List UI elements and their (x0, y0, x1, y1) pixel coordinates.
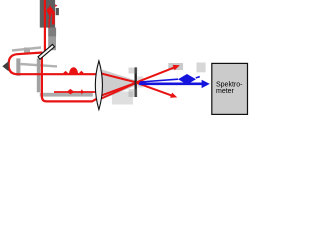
blue ray to diamond (140, 79, 178, 82)
dark mark right of lamp (56, 8, 59, 15)
beam vertical from lamp (44, 0, 46, 53)
lens L1 (95, 61, 102, 110)
lamp column gray (48, 28, 56, 51)
converging ray lower2 (102, 83, 137, 99)
ghost band lower (40, 93, 93, 97)
scatter star b2 (79, 89, 85, 95)
ghost blocks at filter (129, 68, 144, 98)
mirror M1 (38, 44, 55, 59)
ghost line A (12, 48, 41, 51)
scatter diamond b1 (67, 89, 74, 95)
flame tail (49, 19, 50, 28)
converging ray upper (102, 74, 137, 83)
spectrometer box (212, 63, 248, 114)
red ray down with arrow (137, 83, 178, 98)
red dash after filter (137, 81, 146, 83)
scatter dome a2 (69, 67, 78, 74)
scatter diamond a1 (63, 71, 68, 75)
beam transmitted down (42, 57, 97, 102)
svg-text:meter: meter (216, 88, 235, 95)
lamp housing U1 (40, 0, 55, 28)
blue diamond (178, 74, 196, 85)
scatter diamond a3 (79, 71, 83, 75)
converging ray lower1 (102, 83, 136, 96)
glow stripe on right bar (52, 11, 55, 24)
red ray up with arrow (137, 65, 180, 82)
spark arrow right of lamp (55, 4, 57, 7)
beam reflected to loop (9, 53, 97, 75)
pump arrow wedge (2, 61, 8, 71)
ghost block near box (197, 63, 206, 73)
ghost corner block (24, 48, 30, 54)
ghost bar in loop (16, 58, 20, 75)
gray smudge below cone (112, 92, 133, 105)
filter bar FL1 (135, 67, 137, 97)
blue dash after diamond (196, 77, 200, 78)
ghost line B (21, 64, 58, 66)
blue main arrow (139, 80, 210, 88)
beam B lower (54, 91, 96, 93)
ghost block near red arrow (168, 63, 183, 70)
ghost bar left of beam (37, 59, 41, 93)
gray cone to filter (102, 70, 136, 100)
flame F1 (46, 3, 53, 25)
